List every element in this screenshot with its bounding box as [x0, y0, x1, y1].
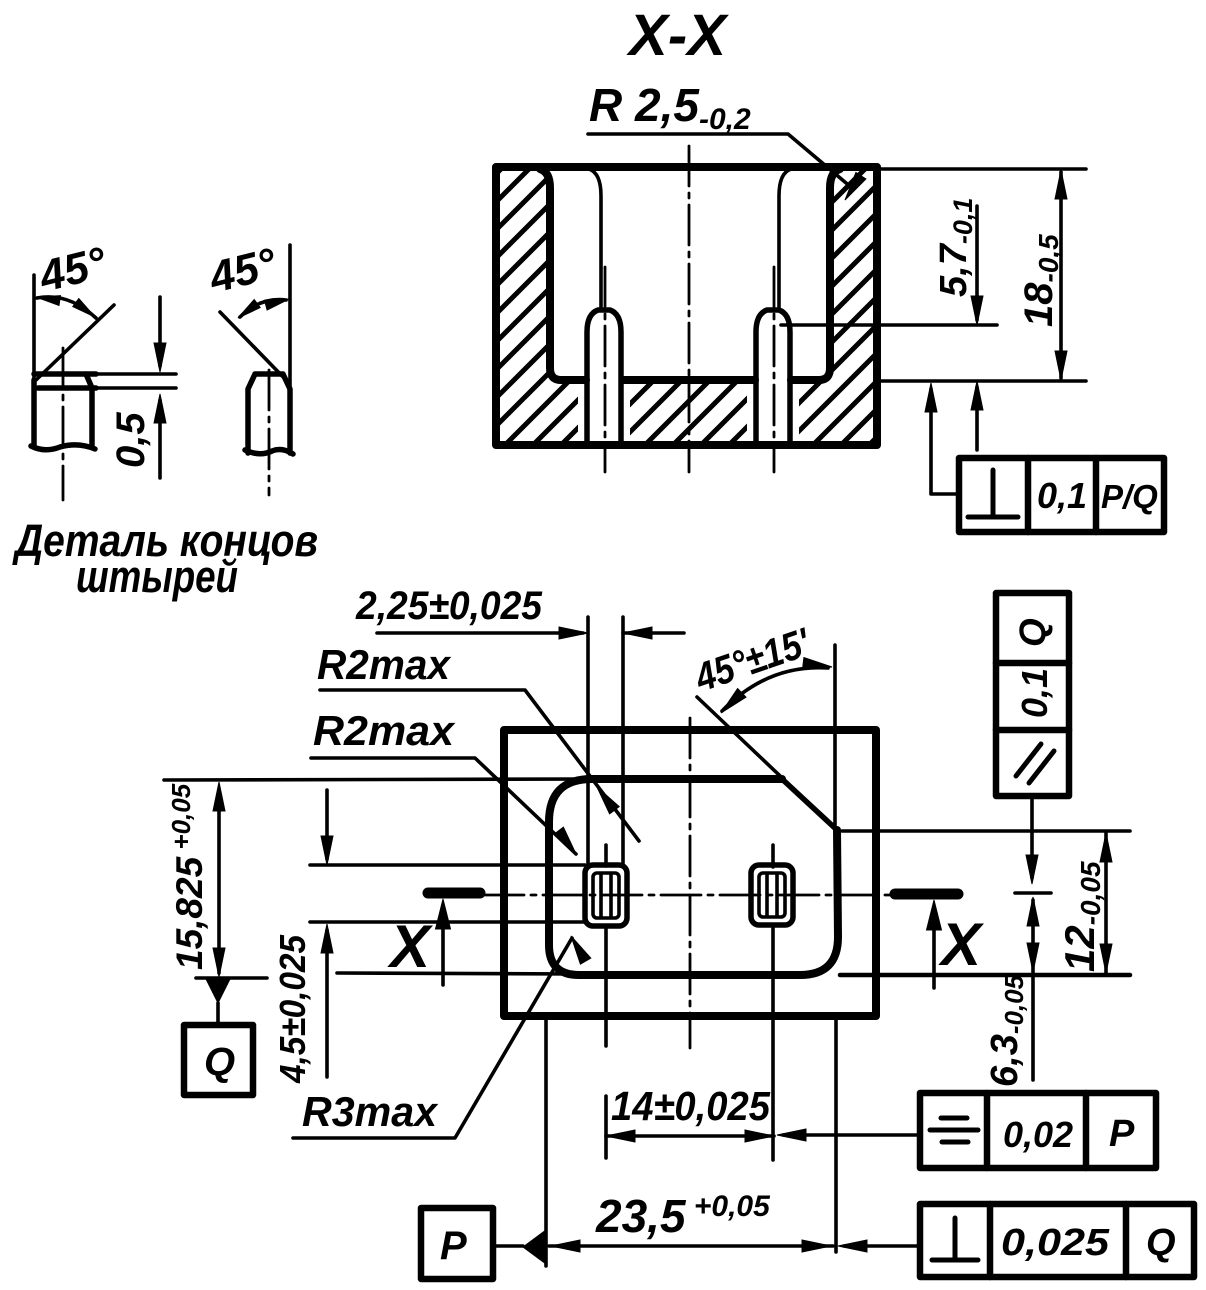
svg-text:P/Q: P/Q [1101, 478, 1158, 515]
plan vertical center line [689, 718, 692, 1048]
feature control frame symmetry 0,02 P [920, 1093, 1156, 1168]
svg-text:23,5 +0,05: 23,5 +0,05 [595, 1190, 771, 1242]
dimension 5,7-0,1 [933, 198, 978, 297]
cavity corner silhouette line right [779, 169, 791, 307]
svg-text:0,5: 0,5 [109, 412, 153, 468]
extension line pin bottom (4,5) [310, 920, 585, 924]
extension cavity bottom to right [840, 973, 1130, 978]
svg-text:0,1: 0,1 [1037, 475, 1087, 516]
section cavity walls and floor [540, 169, 840, 380]
svg-text:R3max: R3max [302, 1088, 439, 1135]
left pin center line (section) [604, 267, 607, 472]
svg-text:0,1: 0,1 [1014, 668, 1055, 718]
svg-text:2,25±0,025: 2,25±0,025 [355, 584, 543, 628]
section main center line [688, 146, 691, 472]
svg-text:P: P [1109, 1113, 1135, 1155]
svg-text:0,02: 0,02 [1003, 1114, 1073, 1155]
extension line cavity bottom to left [337, 973, 579, 974]
leader of vertical frame [1030, 796, 1034, 878]
pin end detail right: body [248, 374, 290, 453]
feature control frame perpendicularity 0,025 Q [920, 1204, 1194, 1277]
svg-text:14±0,025: 14±0,025 [611, 1083, 771, 1129]
pin end detail right: chamfer line [220, 312, 288, 382]
svg-text:R2max: R2max [313, 707, 456, 754]
extension line cavity floor right [877, 379, 1086, 383]
svg-text:X-X: X-X [626, 3, 729, 68]
dimension 0,5 [109, 412, 153, 468]
dimension 18-0,5 [1017, 234, 1064, 327]
svg-text:15,825 +0,05: 15,825 +0,05 [166, 783, 210, 970]
svg-text:4,5±0,025: 4,5±0,025 [272, 934, 313, 1084]
dimension 15,825+0,05 [166, 783, 210, 970]
leader of perpendicularity frame [844, 1244, 920, 1248]
pin end detail left: chamfer line [36, 305, 114, 380]
extension line top edge right [877, 167, 1086, 171]
pin end detail left: tip face lines [34, 371, 96, 377]
horizontal center line X-X [484, 894, 896, 897]
cavity corner silhouette line left [589, 169, 601, 307]
svg-text:Q: Q [1012, 618, 1053, 647]
dimension 6,3-0,05 [984, 974, 1029, 1087]
svg-text:P: P [440, 1224, 467, 1268]
extension line pin top level [781, 323, 997, 327]
dimension 45°±15' with arc [689, 620, 817, 701]
svg-text:Q: Q [1146, 1222, 1176, 1264]
svg-text:Q: Q [204, 1040, 235, 1084]
vertical feature control frame // 0,1 Q [996, 593, 1069, 796]
pin end detail left: body [34, 374, 92, 446]
svg-text:5,7-0,1: 5,7-0,1 [933, 198, 978, 297]
section body outer outline [496, 167, 877, 445]
leader of symmetry frame [783, 1133, 920, 1137]
right pin (plan) [751, 865, 793, 925]
svg-text:R2max: R2max [317, 641, 452, 688]
svg-text:0,025: 0,025 [1001, 1222, 1110, 1264]
pin end detail left: extended side line [32, 275, 36, 378]
extension line cavity top to left [164, 779, 592, 780]
section mark left: bar, arrow, letter X [428, 888, 480, 899]
svg-text:X: X [938, 911, 985, 978]
plan cavity outline [549, 779, 838, 975]
svg-text:R 2,5-0,2: R 2,5-0,2 [589, 79, 751, 136]
dimension 4,5±0,025 [272, 934, 313, 1084]
svg-text:45°: 45° [34, 238, 112, 302]
pin end detail right: angle arc [240, 300, 286, 317]
feature control frame perpendicularity 0,1 P/Q [959, 458, 1164, 532]
svg-text:45°: 45° [204, 239, 282, 303]
section hatching of walls and bottom slab [496, 167, 877, 445]
pin end detail right: 45 deg label [204, 239, 282, 303]
datum P triangle and box [421, 1208, 493, 1279]
leader of frame 0,1 P/Q [931, 389, 959, 494]
left pin (plan) [585, 865, 627, 926]
right pin axis lines [771, 845, 775, 867]
pin end detail right: extended side line [288, 245, 292, 388]
section mark right: bar, arrow, letter X [895, 889, 958, 900]
pin end detail left: center line [62, 348, 65, 500]
right pin center line (section) [773, 267, 776, 472]
left pin axis lines [604, 845, 608, 866]
dimension 12-0,05 [1056, 861, 1106, 972]
plan cavity chamfer 45deg line [697, 697, 837, 830]
svg-text:45°±15': 45°±15' [689, 620, 817, 701]
extension line pin top (4,5) [310, 863, 585, 867]
pin end detail left: 45 deg label [34, 238, 112, 302]
svg-text:12-0,05: 12-0,05 [1056, 861, 1106, 972]
svg-text:штырей: штырей [76, 551, 238, 602]
svg-text:18-0,5: 18-0,5 [1017, 234, 1064, 327]
right pin in section [756, 310, 790, 444]
left pin in section [587, 310, 621, 444]
pin end detail left: angle arc [37, 297, 96, 318]
svg-text:6,3-0,05: 6,3-0,05 [984, 974, 1029, 1087]
plan outer outline [504, 730, 876, 1016]
pin end detail right: center line [268, 370, 271, 495]
datum Q triangle and box [206, 979, 230, 1003]
